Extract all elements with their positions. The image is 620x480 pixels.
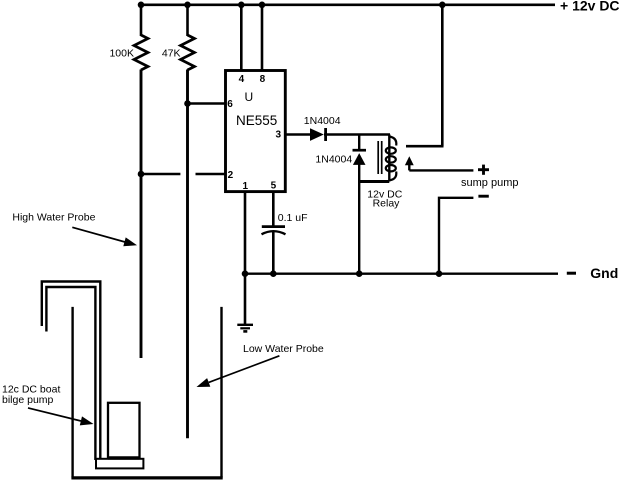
arrow high water probe [72, 227, 137, 246]
svg-text:NE555: NE555 [236, 113, 277, 128]
arrow bilge pump [28, 408, 94, 426]
diode D2 1N4004 flyback [353, 150, 367, 165]
tank right wall [220, 307, 222, 478]
svg-text:8: 8 [260, 74, 266, 85]
diode D1 1N4004 [310, 128, 326, 141]
svg-text:1: 1 [243, 181, 249, 192]
wire 47K top lead [186, 5, 189, 36]
svg-text:100K: 100K [109, 48, 134, 60]
svg-text:3: 3 [276, 130, 282, 141]
wire relay bottom [358, 180, 389, 183]
label - sump [478, 195, 488, 198]
capacitor C1 [262, 227, 286, 235]
svg-text:bilge pump: bilge pump [2, 394, 54, 406]
junction dot gnd/relay [356, 270, 363, 277]
svg-text:High Water Probe: High Water Probe [12, 212, 95, 224]
svg-text:47K: 47K [162, 48, 181, 60]
junction dot 100K/pin2 [138, 171, 145, 178]
junction dot rail/pin8 [259, 2, 266, 9]
svg-text:0.1 uF: 0.1 uF [278, 212, 308, 224]
wire high water probe [140, 70, 143, 359]
wire D2 to gnd rail [358, 164, 360, 274]
wire cap to gnd [272, 231, 275, 274]
junction dot rail/47K [184, 2, 191, 9]
wire pin 3 [285, 133, 311, 135]
svg-text:sump pump: sump pump [461, 177, 518, 189]
wire pin 8 [261, 5, 264, 71]
svg-text:2: 2 [228, 170, 234, 181]
junction dot rail/pin4 [238, 2, 245, 9]
relay K1 coil [378, 135, 396, 182]
relay armature arrow [405, 156, 414, 170]
wire relay fixed contact [406, 145, 444, 148]
wire sump pump + [409, 169, 473, 171]
svg-text:U: U [245, 90, 254, 104]
wire pin 1 [244, 192, 247, 325]
junction dot rail/100K [138, 2, 145, 9]
wire Gnd rail [245, 273, 558, 275]
label 12c DC boat bilge pump [2, 383, 60, 406]
wire sump pump - [439, 198, 473, 274]
bilge pump body [108, 403, 140, 458]
hose inner line [46, 287, 95, 460]
svg-text:6: 6 [227, 99, 233, 110]
wire relay node down [358, 135, 360, 151]
wire pin 4 [240, 5, 243, 71]
junction dot gnd/sump [436, 270, 443, 277]
svg-text:Low Water Probe: Low Water Probe [243, 343, 324, 355]
hose outer line [42, 282, 101, 459]
junction dot rail/relay contact feed [439, 2, 446, 9]
bilge pump base [96, 459, 143, 469]
wire +12V top rail [140, 4, 555, 7]
svg-text:5: 5 [271, 181, 277, 192]
tank left wall [71, 307, 73, 478]
wire pin 2 left segment [141, 173, 180, 175]
junction dot 47K/pin6 [184, 100, 191, 107]
resistor R2 47K [181, 35, 195, 70]
arrow low water probe [197, 356, 280, 387]
wire low water probe [186, 70, 189, 439]
wire pin 2 right segment [196, 173, 226, 175]
tank bottom [71, 476, 222, 479]
IC U1 NE555 body [226, 71, 286, 192]
svg-text:1N4004: 1N4004 [304, 115, 341, 127]
wire pin 6 [186, 102, 226, 104]
junction dot gnd/cap [270, 270, 277, 277]
svg-text:Relay: Relay [373, 198, 401, 210]
bilge pump outlet bar [108, 456, 140, 459]
svg-text:+ 12v DC: + 12v DC [560, 0, 620, 14]
resistor R1 100K [134, 35, 148, 70]
wire 100K top lead [140, 5, 143, 36]
svg-text:4: 4 [239, 74, 245, 85]
label - Gnd [567, 265, 619, 281]
label + sump [478, 165, 489, 175]
wire pin3 to relay [324, 133, 390, 135]
wire +12V feed vertical [441, 5, 444, 146]
svg-text:Gnd: Gnd [590, 265, 618, 281]
svg-text:1N4004: 1N4004 [315, 154, 352, 166]
wire pin 5 [272, 192, 275, 226]
ground symbol [237, 325, 253, 332]
junction dot gnd/pin1 [242, 270, 249, 277]
